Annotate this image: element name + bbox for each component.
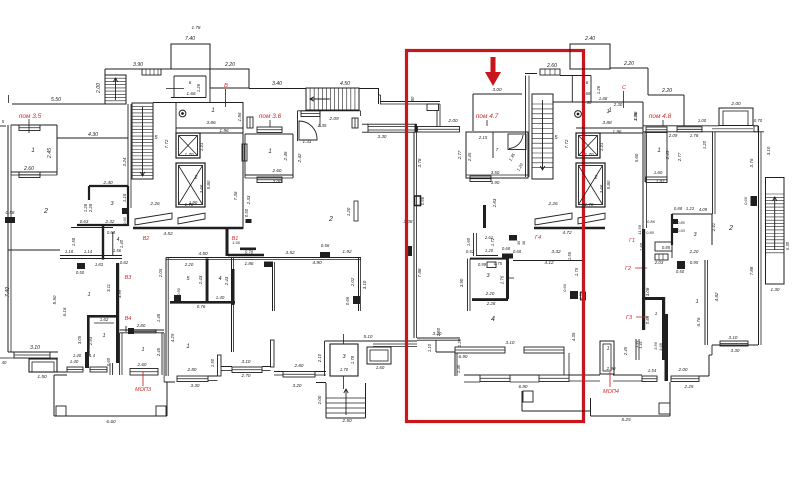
svg-text:1.78: 1.78 (690, 133, 699, 138)
svg-text:2.10: 2.10 (317, 353, 322, 363)
svg-text:4: 4 (491, 316, 495, 323)
right stair ext (766, 178, 785, 285)
mop4 leader (609, 372, 611, 387)
svg-text:0.60: 0.60 (122, 216, 127, 225)
cluster bottom wall (170, 301, 235, 304)
svg-text:0.93: 0.93 (677, 228, 686, 233)
win g1 (655, 254, 668, 260)
room 6 walls (173, 76, 175, 98)
wall x473 (472, 94, 474, 131)
svg-text:2.20: 2.20 (661, 88, 672, 94)
svg-text:В: В (224, 83, 228, 89)
svg-text:0.70: 0.70 (754, 118, 763, 123)
svg-text:2.80: 2.80 (136, 323, 146, 328)
right porch B square (659, 403, 670, 414)
svg-text:2.45: 2.45 (283, 151, 288, 161)
outer top wall left wing (12, 103, 105, 105)
svg-text:5.50: 5.50 (51, 97, 61, 103)
svg-text:2.60: 2.60 (137, 362, 147, 367)
win marks right red (570, 291, 578, 299)
svg-text:6.60: 6.60 (106, 419, 116, 425)
leader пом 4.8 (662, 120, 664, 126)
wall y95 c (648, 94, 684, 96)
window 47 ca (480, 375, 510, 382)
svg-text:2.20: 2.20 (623, 61, 634, 67)
svg-text:2.45: 2.45 (665, 150, 670, 160)
wall above stairs (105, 68, 171, 70)
svg-text:Г2: Г2 (625, 266, 631, 272)
bottom wall right wing (712, 344, 758, 346)
porch steps (326, 397, 366, 399)
svg-text:1.78: 1.78 (350, 355, 355, 364)
long window 4.7 (418, 127, 460, 133)
svg-text:1.58: 1.58 (71, 237, 76, 246)
svg-text:1: 1 (695, 299, 698, 305)
svg-text:2.28: 2.28 (88, 203, 93, 213)
lobby (153, 102, 243, 104)
svg-text:1.18: 1.18 (65, 249, 74, 254)
svg-text:6.76: 6.76 (696, 317, 701, 326)
box top left 4.7 (427, 104, 439, 111)
svg-text:2: 2 (43, 208, 48, 215)
svg-text:3.10: 3.10 (729, 335, 738, 340)
wall g2 thick (642, 229, 645, 330)
b4 top wall (87, 315, 119, 318)
svg-text:5.80: 5.80 (606, 180, 611, 189)
right wing outer (758, 126, 760, 175)
wall x210 ext (209, 88, 211, 102)
svg-text:1.60: 1.60 (466, 237, 471, 246)
right stair ext treads (766, 193, 785, 195)
svg-text:1: 1 (31, 148, 34, 154)
elevator 1 right (576, 133, 600, 158)
right stair (532, 94, 553, 179)
svg-text:Г3: Г3 (626, 315, 633, 321)
black box cl (174, 295, 181, 302)
elevator 2 right (576, 163, 605, 207)
svg-text:В2: В2 (143, 236, 150, 242)
svg-text:2.00: 2.00 (317, 395, 322, 405)
svg-text:1.86: 1.86 (245, 261, 254, 266)
svg-text:1: 1 (607, 346, 610, 352)
svg-text:1.66: 1.66 (186, 91, 196, 97)
black notches r3 (122, 208, 128, 214)
window 47 bb (524, 347, 564, 353)
svg-text:2.50: 2.50 (341, 418, 352, 424)
svg-text:1.30: 1.30 (771, 287, 780, 292)
wall 47 y375 (464, 374, 480, 376)
svg-text:1.75: 1.75 (574, 267, 579, 276)
svg-text:2.90: 2.90 (606, 366, 616, 371)
svg-text:1.23: 1.23 (686, 206, 695, 211)
landing wall below stair (298, 110, 361, 112)
svg-text:1: 1 (211, 108, 214, 114)
svg-text:2: 2 (594, 175, 598, 181)
svg-text:2.26: 2.26 (149, 201, 160, 207)
svg-text:80: 80 (410, 96, 415, 101)
svg-text:6.90: 6.90 (459, 354, 468, 359)
svg-text:1.35: 1.35 (318, 123, 327, 128)
north wall 48 (712, 132, 714, 214)
svg-text:0.56: 0.56 (321, 243, 330, 248)
room 1 left top window (19, 125, 40, 131)
svg-text:4.29: 4.29 (170, 333, 175, 342)
cluster partition (206, 259, 209, 304)
svg-text:1.90: 1.90 (189, 200, 198, 205)
svg-text:Г4: Г4 (535, 235, 541, 241)
svg-text:4.72: 4.72 (562, 230, 572, 236)
door slab left (135, 213, 172, 225)
landing window (301, 111, 320, 117)
svg-text:1.72: 1.72 (490, 237, 495, 246)
svg-text:2.00: 2.00 (96, 83, 102, 94)
svg-text:2.28: 2.28 (486, 301, 496, 306)
g1 box (655, 242, 672, 251)
svg-text:3.52: 3.52 (285, 250, 295, 256)
pilaster 1 (218, 355, 222, 376)
svg-text:3.10: 3.10 (242, 359, 251, 364)
window bb0 (177, 376, 208, 382)
door slab g4 b (578, 213, 605, 224)
svg-text:0.50: 0.50 (176, 287, 181, 296)
svg-text:3.66: 3.66 (199, 184, 204, 193)
pilaster 2 (271, 340, 275, 367)
svg-text:2.70: 2.70 (241, 373, 251, 378)
svg-text:В4: В4 (125, 316, 132, 322)
window brw (720, 341, 748, 346)
svg-text:0.78: 0.78 (245, 250, 254, 255)
left wall 4.7 (413, 132, 415, 338)
svg-text:3.10: 3.10 (30, 345, 40, 351)
arc door 47 (508, 134, 526, 150)
svg-text:2: 2 (728, 225, 733, 232)
mid apartment left wall (231, 258, 233, 352)
svg-text:1.56: 1.56 (113, 248, 122, 253)
svg-text:3.30: 3.30 (731, 348, 740, 353)
svg-text:40: 40 (2, 360, 7, 365)
svg-text:2: 2 (194, 175, 198, 181)
svg-text:2.15: 2.15 (478, 135, 488, 140)
svg-text:1.60: 1.60 (654, 170, 663, 175)
svg-text:1.20: 1.20 (702, 140, 707, 149)
room 47 bottom double (466, 174, 528, 176)
wall x437 (436, 111, 438, 127)
svg-text:2.00: 2.00 (447, 118, 458, 124)
long wall y258 (166, 257, 361, 259)
svg-text:2.26: 2.26 (547, 201, 558, 207)
svg-text:3.32: 3.32 (551, 249, 561, 255)
svg-text:6: 6 (586, 80, 589, 85)
svg-text:2.43: 2.43 (198, 275, 203, 285)
room 47 box (466, 132, 528, 178)
svg-text:3.05: 3.05 (77, 335, 82, 344)
svg-text:1: 1 (606, 109, 609, 115)
svg-text:0.95: 0.95 (690, 260, 699, 265)
wall y382 center (316, 382, 326, 384)
svg-text:2.41: 2.41 (711, 223, 716, 232)
window r1 rw top (646, 127, 667, 133)
room 1 left walls (11, 124, 57, 126)
svg-text:0.66: 0.66 (345, 296, 350, 305)
center porch (325, 383, 327, 418)
svg-text:2.80: 2.80 (187, 367, 197, 372)
core wall left (104, 69, 106, 104)
window in stair wall (142, 69, 161, 75)
svg-text:2.09: 2.09 (328, 116, 339, 122)
lower cluster walls (71, 227, 113, 229)
svg-text:1: 1 (87, 292, 90, 298)
white box 0.66 47 (415, 196, 421, 206)
leader пом 4.7 (486, 120, 488, 126)
svg-text:В3: В3 (125, 275, 133, 281)
corridor wall g4 (483, 205, 486, 228)
wall x705 (704, 260, 706, 345)
svg-text:1.26: 1.26 (196, 83, 201, 92)
svg-text:2: 2 (328, 216, 333, 223)
svg-text:2.45: 2.45 (467, 152, 472, 162)
svg-text:3.10: 3.10 (766, 146, 771, 155)
machine room right (570, 44, 610, 69)
svg-text:4.52: 4.52 (163, 231, 173, 237)
top wall 4.7 jog (380, 101, 440, 103)
svg-text:4.90: 4.90 (312, 260, 322, 266)
main stair down (132, 103, 153, 179)
svg-text:1.20: 1.20 (457, 338, 462, 347)
lobby circle right (575, 111, 582, 118)
svg-text:Г1: Г1 (629, 238, 635, 244)
svg-text:1.83: 1.83 (95, 262, 104, 267)
window room1 mid top (257, 127, 282, 133)
bottom wall left wing (8, 351, 58, 353)
box C vertical (609, 44, 611, 68)
svg-text:2.03: 2.03 (654, 260, 664, 265)
wall y88 right (359, 88, 379, 90)
wall x114 (109, 363, 111, 375)
landing walls (297, 111, 299, 141)
svg-text:1.40: 1.40 (73, 353, 82, 358)
svg-text:0.66: 0.66 (562, 283, 567, 292)
room3 center leader (343, 334, 345, 344)
svg-text:1.20: 1.20 (485, 248, 494, 253)
right lobby (553, 101, 643, 103)
black box b3 (77, 263, 85, 269)
svg-text:1.78: 1.78 (192, 25, 201, 30)
svg-text:2.93: 2.93 (88, 336, 93, 346)
svg-text:2.20: 2.20 (184, 262, 194, 267)
svg-text:4.39: 4.39 (571, 332, 576, 341)
svg-text:5.10: 5.10 (364, 334, 373, 339)
door slab g4 a (535, 213, 572, 225)
white box right red (581, 292, 586, 300)
corridor wall below B1 (226, 229, 229, 256)
svg-text:1: 1 (102, 333, 105, 339)
svg-text:1.41: 1.41 (634, 340, 639, 348)
svg-text:1: 1 (141, 347, 144, 353)
wall bb1 (221, 366, 232, 368)
window lb b (90, 367, 107, 372)
right porch B (590, 398, 592, 416)
wall y262 47 (513, 260, 582, 262)
room 1 mid (245, 133, 293, 135)
svg-text:1.50: 1.50 (210, 358, 215, 367)
svg-text:2.33: 2.33 (246, 195, 251, 205)
svg-text:0.85: 0.85 (645, 315, 650, 324)
black box right wall (751, 196, 758, 206)
svg-text:0.50: 0.50 (76, 270, 85, 275)
thick wall g4 (534, 227, 605, 230)
svg-text:5.80: 5.80 (206, 180, 211, 189)
svg-text:0.68: 0.68 (513, 249, 522, 254)
svg-text:1.70: 1.70 (585, 152, 594, 157)
svg-text:0.85: 0.85 (662, 245, 671, 250)
wall bb2r (315, 371, 326, 373)
svg-text:1: 1 (655, 311, 658, 316)
room 3 thick (89, 185, 128, 187)
svg-text:2.42: 2.42 (297, 153, 302, 163)
svg-text:1.56: 1.56 (237, 112, 242, 121)
upper stair run (105, 75, 126, 104)
window bb2 (283, 372, 315, 378)
svg-text:1.54: 1.54 (648, 368, 657, 373)
svg-text:1.41: 1.41 (199, 142, 204, 151)
svg-text:2.30: 2.30 (613, 102, 623, 107)
step down (378, 89, 380, 105)
svg-text:3.50: 3.50 (491, 170, 500, 175)
svg-text:2.25: 2.25 (684, 384, 694, 389)
window 47 ba (455, 347, 505, 353)
svg-text:5.30: 5.30 (785, 241, 790, 250)
mid partition x274 (272, 262, 274, 311)
svg-text:4.82: 4.82 (714, 292, 719, 301)
svg-text:68: 68 (587, 100, 592, 105)
small room below 47 (476, 255, 498, 257)
svg-text:2.60: 2.60 (546, 63, 557, 69)
svg-text:2.45: 2.45 (623, 346, 628, 356)
corridor wall below 47 (473, 233, 475, 256)
bay 1.50 (29, 359, 57, 372)
door dark mop3 (85, 352, 89, 368)
svg-text:1.40: 1.40 (216, 295, 225, 300)
svg-text:2.32: 2.32 (105, 219, 115, 224)
wall y94 47 (473, 93, 522, 95)
right core west wall (525, 76, 527, 178)
window band mid-north (368, 124, 416, 132)
svg-text:3.30: 3.30 (191, 383, 200, 388)
svg-text:0.52: 0.52 (466, 249, 475, 254)
box B (210, 69, 249, 88)
door slab right (178, 213, 205, 224)
svg-text:пом 3.5: пом 3.5 (19, 113, 42, 120)
elevator 1 (176, 133, 200, 158)
svg-text:7.36: 7.36 (233, 191, 238, 200)
window bot rw a (642, 376, 657, 382)
bay center (367, 347, 391, 364)
svg-text:0.80: 0.80 (646, 230, 655, 235)
box C walls (610, 67, 648, 69)
svg-text:2.40: 2.40 (102, 180, 113, 186)
svg-text:4: 4 (218, 276, 221, 282)
core wall x129 (127, 104, 129, 208)
svg-text:1.62: 1.62 (100, 317, 109, 322)
svg-text:4.50: 4.50 (198, 251, 208, 257)
strip y341 (373, 340, 417, 342)
svg-text:3.11: 3.11 (106, 284, 111, 292)
leader пом 3.5 (28, 119, 30, 133)
bottom window (14, 352, 50, 358)
lobby circle (179, 110, 186, 117)
svg-text:6.16: 6.16 (62, 307, 67, 316)
porch arrow (345, 389, 347, 415)
svg-text:5.60: 5.60 (634, 153, 639, 162)
svg-text:МОП4: МОП4 (603, 389, 619, 395)
svg-text:3.76: 3.76 (749, 158, 754, 167)
corner mark mid (264, 262, 273, 268)
svg-text:2.02: 2.02 (350, 277, 355, 287)
left outer wall (7, 125, 9, 352)
red arrow (485, 57, 501, 86)
svg-text:0.75: 0.75 (494, 261, 503, 266)
svg-text:1.20: 1.20 (346, 207, 351, 216)
wall y133 (200, 132, 243, 134)
svg-text:1.56: 1.56 (232, 240, 241, 245)
svg-text:4.30: 4.30 (88, 132, 98, 138)
cluster bottom wall2 (60, 255, 122, 257)
window lobby right (247, 117, 253, 128)
right wall lower (758, 175, 760, 345)
svg-text:2.60: 2.60 (272, 168, 282, 173)
svg-text:1.48: 1.48 (156, 313, 161, 322)
mid right wall (358, 258, 360, 311)
leader B (225, 89, 227, 107)
mop3 leader (142, 372, 144, 386)
svg-text:1.55: 1.55 (567, 251, 572, 260)
svg-text:2.83: 2.83 (492, 198, 497, 208)
svg-text:1.41: 1.41 (599, 142, 604, 151)
svg-text:66: 66 (586, 91, 591, 96)
room 2 bottom wall (8, 249, 60, 251)
black mark west wall 47 (407, 246, 412, 256)
room 1 bottom window (19, 172, 40, 178)
window bb1 (232, 367, 262, 373)
svg-text:2.50: 2.50 (436, 327, 441, 337)
svg-text:1.60: 1.60 (376, 365, 385, 370)
svg-text:2.20: 2.20 (689, 249, 699, 254)
mop3 inner squares (56, 406, 66, 416)
window lb a (67, 367, 83, 372)
svg-text:0.66: 0.66 (420, 196, 425, 205)
svg-text:3.30: 3.30 (378, 134, 387, 139)
svg-text:1.70: 1.70 (185, 152, 194, 157)
svg-text:3.68: 3.68 (658, 342, 663, 351)
svg-text:3.10: 3.10 (506, 340, 515, 345)
svg-text:0.86: 0.86 (647, 219, 656, 224)
svg-text:1.26: 1.26 (596, 85, 601, 94)
svg-text:7.40: 7.40 (185, 36, 195, 42)
window bars right (540, 69, 560, 75)
svg-text:0.80: 0.80 (677, 220, 686, 225)
svg-text:4.50: 4.50 (340, 81, 350, 87)
svg-text:1.10: 1.10 (427, 343, 432, 352)
svg-text:1.70: 1.70 (585, 202, 594, 207)
wall bb2 (274, 371, 283, 373)
svg-text:3.00: 3.00 (492, 87, 502, 93)
svg-text:1.00: 1.00 (698, 118, 707, 123)
svg-text:3.08: 3.08 (645, 287, 650, 296)
mop3 room bottom window (130, 369, 158, 376)
svg-text:2.43: 2.43 (224, 276, 229, 286)
svg-text:0.66: 0.66 (743, 196, 748, 205)
svg-text:7.72: 7.72 (164, 139, 169, 148)
